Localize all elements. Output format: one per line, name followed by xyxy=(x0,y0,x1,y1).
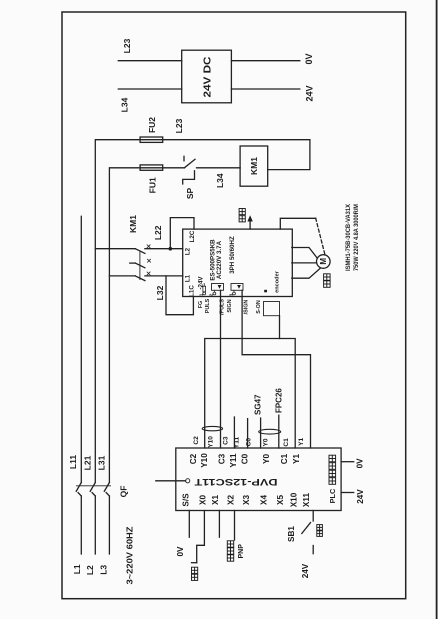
breaker QF fixed contact hook 1 xyxy=(78,493,81,496)
svg-text:Y0: Y0 xyxy=(263,438,270,446)
wire encoder loop xyxy=(280,218,315,229)
wire motor W xyxy=(292,269,320,279)
svg-text:C1: C1 xyxy=(280,453,289,464)
svg-text:3PH 50/60HZ: 3PH 50/60HZ xyxy=(229,236,236,274)
svg-text:encoder: encoder xyxy=(274,270,280,293)
svg-text:C3: C3 xyxy=(223,436,230,445)
svg-text:ISMH1-75B-30CB-VA31X: ISMH1-75B-30CB-VA31X xyxy=(345,203,352,271)
svg-text:/PULS: /PULS xyxy=(220,299,226,315)
wire Y11 stub xyxy=(233,417,235,448)
svg-text:L34: L34 xyxy=(215,173,225,188)
svg-text:0V: 0V xyxy=(356,458,365,469)
wire L11 xyxy=(80,216,82,482)
svg-text:C2: C2 xyxy=(193,436,200,445)
svg-text:L2: L2 xyxy=(185,247,192,255)
svg-text:X3: X3 xyxy=(242,495,251,505)
wire X2 sensor xyxy=(234,511,236,541)
chuanganqi sensor label xyxy=(227,541,233,561)
wire SB1 to 24V xyxy=(312,546,314,554)
svg-text:C0: C0 xyxy=(241,453,250,464)
svg-text:Y1: Y1 xyxy=(298,437,305,445)
svg-text:Y1: Y1 xyxy=(292,454,301,464)
wire SON drop xyxy=(279,316,281,339)
fuwei reset label xyxy=(317,525,323,537)
svg-text:L23: L23 xyxy=(122,38,132,53)
wire PLC 0V stub xyxy=(341,461,354,463)
breaker QF pole 1 blade xyxy=(76,483,81,492)
motor M1 xyxy=(317,255,331,269)
wire L31 xyxy=(109,168,184,483)
CJK glyph placeholders xyxy=(192,209,336,581)
wire L34 SP to KM1 coil xyxy=(197,167,241,169)
svg-text:L21: L21 xyxy=(83,455,93,470)
svg-text:FG: FG xyxy=(198,301,204,309)
cable marker ellipse 1 xyxy=(202,426,222,430)
contactor KM1 x mark 3 xyxy=(147,272,150,275)
svg-text:24V: 24V xyxy=(356,489,365,504)
svg-text:L3: L3 xyxy=(98,565,108,575)
jiedi ground label xyxy=(239,209,245,222)
wire L1C loop xyxy=(166,276,193,315)
wire C1 stub xyxy=(278,415,280,448)
svg-text:3: 3 xyxy=(228,293,233,296)
wire PLC 24V stub xyxy=(341,492,354,494)
contactor KM1 pole 1 wire out L22 xyxy=(145,248,183,250)
breaker QF pole 2 blade xyxy=(90,483,95,492)
svg-text:0V: 0V xyxy=(304,53,314,64)
svg-text:1: 1 xyxy=(199,293,204,296)
svg-text:FU2: FU2 xyxy=(147,117,157,133)
border frame xyxy=(62,12,406,599)
svg-text:C3: C3 xyxy=(218,453,227,464)
svg-text:0V: 0V xyxy=(176,546,185,557)
wire SIGN down xyxy=(242,290,310,448)
svg-text:-24V: -24V xyxy=(197,276,204,290)
wire L34 stub to PSU xyxy=(118,88,181,90)
svg-text:FU1: FU1 xyxy=(148,177,158,193)
svg-text:X5: X5 xyxy=(276,495,285,505)
contactor KM1 pole 2 blade xyxy=(135,263,145,268)
wire C0 stub xyxy=(247,419,249,448)
svg-text:FPC26: FPC26 xyxy=(275,388,284,413)
svg-text:PNP: PNP xyxy=(238,544,245,559)
wire C2 route xyxy=(205,339,296,449)
svg-text:X4: X4 xyxy=(259,495,268,505)
svg-text:Y10: Y10 xyxy=(200,453,209,468)
wire motor V xyxy=(292,262,317,264)
pressure switch SP fixed tick xyxy=(183,156,185,161)
drive SON connector box xyxy=(264,302,280,316)
wire S/S to 0V xyxy=(188,511,190,538)
wire motor U xyxy=(292,248,318,259)
contactor KM1 pole 1 wire in xyxy=(95,248,135,250)
svg-text:M: M xyxy=(319,258,328,265)
scan edge strip xyxy=(436,0,438,619)
dianyuan shuru label xyxy=(329,455,336,484)
svg-text:L2: L2 xyxy=(85,565,95,575)
wire L3 phase input xyxy=(108,496,110,554)
svg-text:C0: C0 xyxy=(246,438,253,447)
contactor KM1 pole 2 stub xyxy=(130,262,136,264)
svg-text:AC220V 3.7A: AC220V 3.7A xyxy=(216,240,223,279)
PLC port circle xyxy=(186,479,190,483)
svg-text:PULS: PULS xyxy=(205,298,211,313)
breaker QF pole 3 blade xyxy=(104,483,109,492)
wire L2 phase input xyxy=(94,496,96,554)
svg-text:X11: X11 xyxy=(302,493,311,508)
svg-text:2: 2 xyxy=(209,293,214,296)
drive pin 3 circle xyxy=(233,292,236,295)
svg-text:L1C: L1C xyxy=(189,285,196,297)
svg-text:L1: L1 xyxy=(185,274,192,282)
wire 0V output stub xyxy=(231,60,299,62)
ground arrow on drive xyxy=(249,219,251,230)
breaker QF tie bar xyxy=(77,485,111,487)
wire X11 stub xyxy=(312,511,314,522)
svg-text:3~220V 60HZ: 3~220V 60HZ xyxy=(125,527,135,585)
svg-text:SB1: SB1 xyxy=(287,526,296,542)
svg-text:X0: X0 xyxy=(199,495,208,505)
svg-text:L23: L23 xyxy=(174,118,184,133)
svg-text:L32: L32 xyxy=(155,285,165,300)
wire PLC port stub xyxy=(156,480,186,482)
wire L1 phase input xyxy=(80,496,82,554)
24VDC power supply U2 xyxy=(182,50,232,103)
svg-text:L31: L31 xyxy=(97,455,107,470)
cable marker ellipse 2 xyxy=(259,429,281,434)
pressure switch SP blade xyxy=(184,159,195,168)
contactor KM1 pole 3 blade xyxy=(135,276,145,281)
svg-text:L34: L34 xyxy=(120,97,130,112)
svg-text:C1: C1 xyxy=(283,438,290,447)
breaker QF fixed contact hook 2 xyxy=(92,493,95,496)
svg-text:X1: X1 xyxy=(211,495,220,505)
wire L23 stub to PSU xyxy=(118,60,181,62)
svg-text:SP: SP xyxy=(185,188,195,200)
svg-text:S/S: S/S xyxy=(181,493,190,507)
svg-text:S-ON: S-ON xyxy=(256,300,262,314)
contactor KM1 pole 3 wire out L32 xyxy=(145,275,183,277)
PLC U3 xyxy=(176,448,341,511)
svg-text:24V DC: 24V DC xyxy=(202,56,214,97)
svg-text:L1: L1 xyxy=(72,564,82,574)
fuse FU2 xyxy=(140,137,163,142)
wire Y0 stub xyxy=(260,418,262,448)
svg-text:Y11: Y11 xyxy=(233,436,240,448)
wire X1 xyxy=(218,511,220,538)
svg-text:L22: L22 xyxy=(153,225,163,240)
svg-text:SIGN: SIGN xyxy=(227,299,233,312)
wire X0 online xyxy=(197,511,205,563)
svg-text:DVP-12SC11T: DVP-12SC11T xyxy=(194,476,277,487)
contactor KM1 x mark 1 xyxy=(147,245,150,248)
drive opto input 2 xyxy=(231,284,243,291)
wire 24V output stub xyxy=(231,88,299,90)
wire KM1 coil to L23 row xyxy=(268,140,310,170)
button SB1 blade xyxy=(302,523,311,534)
svg-text:PLC: PLC xyxy=(328,488,337,503)
svg-text:KM1: KM1 xyxy=(128,215,138,233)
wire encoder cable dashed xyxy=(316,218,325,255)
zhuzhou spindle label xyxy=(324,274,331,288)
contactor KM1 linkage xyxy=(139,252,141,280)
svg-text:X10: X10 xyxy=(290,492,299,507)
svg-text:750W 220V 4.8A 3000R/M: 750W 220V 4.8A 3000R/M xyxy=(353,204,360,271)
drive pin 1 circle xyxy=(203,292,206,295)
svg-text:SG47: SG47 xyxy=(254,394,263,415)
contactor KM1 pole 3 wire in xyxy=(109,275,135,277)
svg-text:C2: C2 xyxy=(189,453,198,464)
svg-text:24V: 24V xyxy=(301,563,310,578)
svg-text:Y10: Y10 xyxy=(208,436,215,448)
lianji online label xyxy=(192,567,198,580)
wire L2C loop xyxy=(170,218,194,249)
drive SON pin square xyxy=(264,290,267,293)
svg-text:KM1: KM1 xyxy=(249,157,259,175)
svg-text:Y0: Y0 xyxy=(262,454,271,464)
svg-text:Y11: Y11 xyxy=(229,453,238,468)
pressure switch SP actuator bracket xyxy=(183,171,195,184)
drive opto input 1 xyxy=(212,284,224,291)
svg-text:/SIGN: /SIGN xyxy=(243,300,249,315)
contactor KM1 pole 1 blade xyxy=(135,249,145,254)
svg-text:QF: QF xyxy=(119,486,129,498)
svg-text:24V: 24V xyxy=(305,85,315,101)
servo drive U1 xyxy=(183,229,293,296)
svg-text:L11: L11 xyxy=(68,455,78,469)
contactor coil KM1 xyxy=(240,146,268,186)
breaker QF fixed contact hook 3 xyxy=(106,493,109,496)
contactor KM1 x mark 2 xyxy=(148,259,151,262)
drive pin1 internal resistor xyxy=(203,286,206,292)
fuse FU1 xyxy=(140,165,163,170)
svg-text:X2: X2 xyxy=(226,495,235,505)
drive pin 2 circle xyxy=(213,292,216,295)
svg-text:L2C: L2C xyxy=(189,230,196,242)
wire L21 xyxy=(95,140,310,483)
node L22 junction dot xyxy=(169,247,173,251)
wire PULS to PLC xyxy=(220,290,222,448)
